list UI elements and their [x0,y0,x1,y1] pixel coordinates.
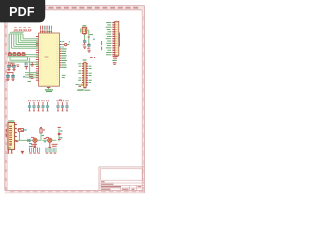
IC1 right pins and net labels [59,42,70,78]
ground stubs under LED circuits [29,148,56,154]
X1 shield legs [7,144,32,154]
frame border [5,6,145,193]
IC1 left pins [36,37,39,81]
capacitor C21 bypass [61,101,64,111]
ferrite bead L1 [16,129,28,142]
capacitor C12 bypass [37,101,40,111]
capacitor C22 bypass [65,101,68,111]
capacitor C11 bypass [32,101,35,111]
svg-text:PDF: PDF [9,5,35,19]
capacitor C11 [28,139,30,142]
connector X1 USB [6,121,16,149]
LED1 with resistor [28,137,42,147]
capacitors C9 C10 with grounds [83,39,95,52]
ground arrow under X1 [21,151,25,155]
IC1 bottom GND pin [45,85,78,92]
reset circuit R9 C8 [23,62,39,81]
label bypass caps [59,99,62,101]
PDF badge [0,0,45,22]
capacitor C14 bypass [46,101,49,111]
title block text [101,182,141,189]
node between LEDs [44,139,47,142]
regulator U$1 wires [81,26,93,44]
capacitor C10 bypass [28,101,31,111]
resistor R10 vertical [40,128,45,140]
node VBUS wire [58,127,63,141]
capacitor C20 bypass [56,101,59,111]
connector SV1 ISP header [77,58,95,91]
ground below JP2 [112,60,116,64]
capacitor C13 bypass [41,101,44,111]
wire bus to IC1 [9,34,38,55]
connector JP2 pin header [102,21,120,58]
resistors R1 R2 R3 R4 values [10,28,31,33]
resistors R5 R6 R7 R8 row [8,53,39,61]
inductor L2 [78,84,84,90]
capacitors C4 C5 [6,73,15,81]
label power text [76,89,78,91]
title block box [99,167,144,191]
op-amp IC1 body [39,33,60,86]
crystal Q1 with caps C6 C7 [7,58,38,79]
IC1 top pins VCC AVCC [40,26,52,33]
LED2 with resistor [42,137,57,147]
